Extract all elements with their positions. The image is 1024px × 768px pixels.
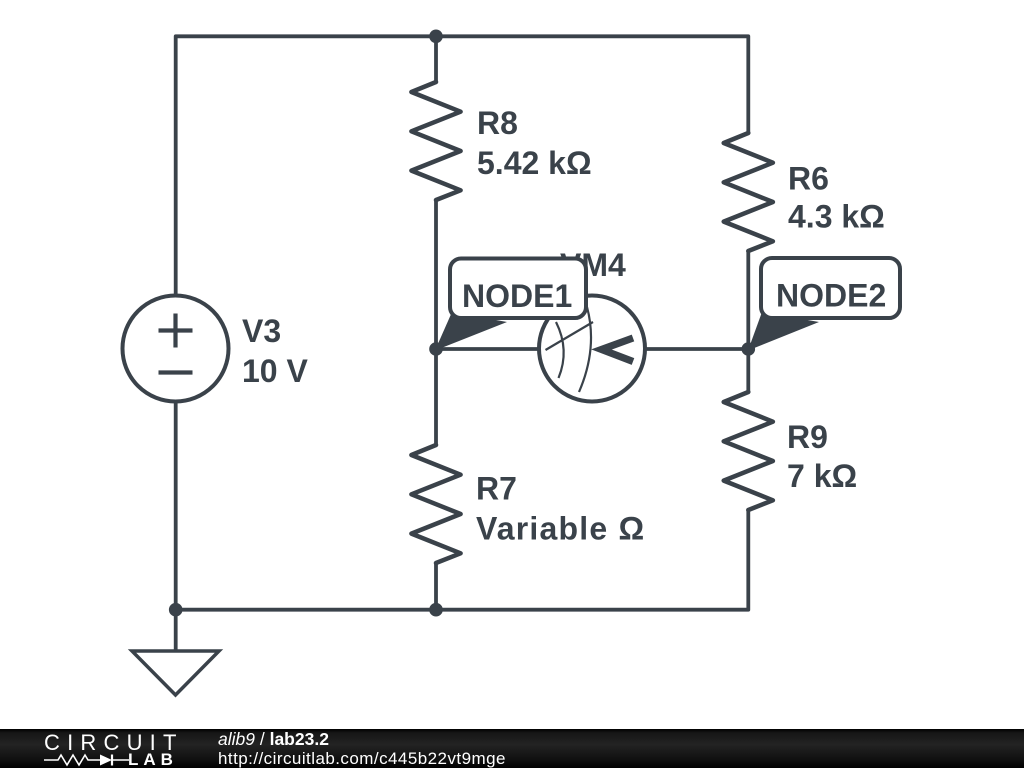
svg-text:R6: R6 — [788, 161, 829, 197]
svg-text:NODE1: NODE1 — [462, 278, 572, 314]
svg-text:R8: R8 — [477, 105, 518, 141]
svg-text:R9: R9 — [787, 419, 828, 455]
svg-text:5.42 kΩ: 5.42 kΩ — [477, 145, 592, 181]
svg-text:7 kΩ: 7 kΩ — [787, 458, 857, 494]
svg-text:Variable Ω: Variable Ω — [476, 511, 645, 547]
svg-text:10 V: 10 V — [242, 353, 308, 389]
svg-text:NODE2: NODE2 — [776, 278, 886, 314]
svg-text:4.3 kΩ: 4.3 kΩ — [788, 199, 885, 235]
svg-text:V3: V3 — [242, 313, 281, 349]
svg-text:R7: R7 — [476, 471, 517, 507]
